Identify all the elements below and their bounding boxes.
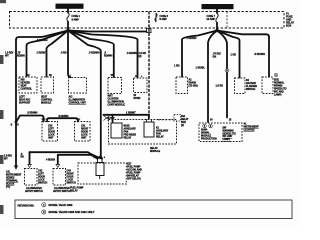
svg-text:MODEL YEARS 1990 AND 1991 ONLY: MODEL YEARS 1990 AND 1991 ONLY: [49, 210, 95, 214]
label MR2 right: [156, 127, 169, 139]
caption fuel pump relay: [70, 187, 84, 193]
svg-text:1.5 RD: 1.5 RD: [216, 85, 224, 88]
wire drop to relay pins right: [148, 115, 150, 119]
wire label r3 up: [213, 53, 221, 59]
component box M1 door lock: [42, 122, 58, 142]
wire right fan branch r5: [217, 31, 269, 77]
wire banner2 drop: [216, 9, 218, 13]
svg-text:.5 RD/WH: .5 RD/WH: [27, 112, 38, 115]
caption box K1: [19, 96, 31, 105]
svg-text:RELAY: RELAY: [70, 190, 78, 193]
label fuse 5: [160, 15, 169, 21]
svg-text:BOX: BOX: [181, 122, 186, 124]
wire left fan branch b8 horizontal to junction: [68, 31, 147, 32]
svg-text:HOT AT ALL TIMES: HOT AT ALL TIMES: [58, 5, 82, 9]
relay pins fuel pump: [98, 159, 103, 164]
component box K5: [134, 78, 148, 93]
svg-text:OFF DELAY): OFF DELAY): [127, 178, 141, 181]
svg-text:SWITCH: SWITCH: [246, 88, 255, 91]
junction at 148,117: [148, 114, 150, 116]
svg-text:UNIT: UNIT: [81, 137, 87, 140]
label box R2 right: [246, 79, 257, 91]
node left fan: [66, 29, 69, 32]
svg-text:HOT IN RUN/START: HOT IN RUN/START: [205, 5, 230, 9]
dashed wire from fuse box at x149: [148, 12, 150, 118]
wire left fan branch b7: [68, 31, 138, 78]
caption BL1: [25, 187, 43, 193]
connector at box M1: [42, 119, 46, 122]
wire label 1.5 RD/WT left: [5, 52, 13, 58]
label box R3 right: [274, 79, 287, 97]
label fuel pump relay right: [127, 163, 142, 181]
svg-text:ENTRY SWITCH: ENTRY SWITCH: [53, 190, 71, 193]
caption enclosure bottom: [150, 147, 161, 153]
label fuse 7: [206, 15, 215, 21]
wire left fan branch b5: [68, 31, 102, 159]
svg-text:CONT MODULE: CONT MODULE: [108, 104, 126, 107]
svg-text:BOX: BOX: [286, 25, 292, 28]
component box K2: [41, 77, 54, 93]
wire label 1 RD r1 low: [174, 65, 180, 68]
circled 1 revision: [42, 203, 46, 207]
text to terminal block: [6, 171, 22, 189]
wire left fan branch b1: [16, 31, 68, 166]
component box K4: [108, 78, 122, 94]
wire label 1 RD/GN r1: [187, 37, 197, 40]
svg-text:(2): (2): [181, 125, 184, 127]
svg-text:RD/WH: RD/WH: [104, 55, 112, 58]
component box MR2 inner relay: [144, 119, 154, 137]
label corner BL1: [21, 154, 25, 159]
svg-text:BOND: BOND: [134, 97, 141, 100]
wire label .5 RD/WH b6: [104, 52, 112, 58]
svg-text:CLUSTER: CLUSTER: [244, 129, 255, 132]
pin label box5: [135, 75, 143, 78]
component box BL2: [53, 169, 76, 186]
wire label .5 RD/WH fan left: [37, 39, 48, 42]
fuse F1 symbol: [67, 13, 69, 22]
node right fan: [215, 29, 218, 32]
svg-text:.5 RD/WH: .5 RD/WH: [89, 52, 100, 55]
banner HOT IN RUN AND START: [202, 4, 234, 9]
wire label .5 RD/WH b5: [89, 52, 100, 55]
fuse box divider: [226, 12, 228, 29]
svg-text:SWITCH: SWITCH: [38, 182, 47, 185]
svg-text:.5 RD: .5 RD: [61, 52, 67, 55]
caption box K5: [134, 94, 141, 100]
svg-text:PRODUCTION: PRODUCTION: [201, 138, 217, 141]
small box bus end: [174, 115, 189, 128]
wire drop to box MR1: [112, 115, 114, 122]
component box R2: [235, 78, 246, 94]
wire label 1 RD/WT b3: [37, 52, 47, 55]
wire mid horizontal bus right: [104, 114, 150, 116]
relay inner box: [96, 163, 104, 176]
svg-text:MODULE: MODULE: [41, 102, 52, 105]
component box K3: [69, 78, 87, 94]
wire bottom-left horizontal upper: [30, 152, 98, 159]
banner HOT AT ALL TIMES: [56, 4, 84, 9]
dashed wire bus continuation right: [158, 119, 174, 121]
wire left fan branch b6: [68, 31, 114, 78]
svg-text:.5 RD/WH: .5 RD/WH: [58, 115, 69, 118]
text N16 left col: [201, 129, 217, 141]
svg-text:GN: GN: [213, 56, 217, 59]
dashed enclosure mid-right: [109, 120, 177, 145]
svg-text:.5 RD/WH: .5 RD/WH: [254, 53, 265, 56]
label box R1 right: [189, 79, 198, 88]
svg-text:CONTROL: CONTROL: [21, 88, 33, 91]
wire label 1.5 RD/WT bottom left: [4, 155, 12, 161]
circled 2 revision: [42, 210, 46, 214]
svg-text:1 RD/WT: 1 RD/WT: [37, 52, 47, 55]
caption BL2: [53, 187, 71, 193]
connector at box MR1: [111, 118, 115, 121]
svg-text:1 RD: 1 RD: [174, 65, 180, 68]
wire mid-left junction riser: [16, 116, 44, 123]
wire knot crossing: [89, 153, 102, 159]
text N16 right col: [223, 127, 236, 142]
wire right fan branch r1: [182, 31, 217, 77]
wire right fan branch r3: [217, 31, 227, 118]
circled B marker r3: [225, 69, 229, 73]
wire bottom-left horizontal lower: [58, 155, 102, 164]
pin labels fuel pump relay: [93, 156, 106, 159]
wire banner1 drop: [67, 9, 69, 13]
big dashed box N16: [199, 123, 242, 142]
connector at box BL2: [56, 165, 60, 168]
fuse F2 symbol: [216, 13, 218, 23]
svg-text:.5 RD/WH: .5 RD/WH: [37, 39, 48, 42]
node S33 junction: [15, 121, 18, 124]
svg-text:RD/BN: RD/BN: [17, 55, 25, 58]
svg-text:1 RD/GN: 1 RD/GN: [187, 37, 197, 40]
label N16 right outside: [244, 123, 260, 132]
svg-text:REVISIONS:: REVISIONS:: [18, 203, 35, 207]
component box M2 door lock right: [75, 122, 91, 142]
svg-text:(2): (2): [139, 55, 142, 58]
component box MR1 inner: [111, 123, 136, 140]
svg-text:1 RD/WT: 1 RD/WT: [126, 111, 136, 114]
svg-text:8 AMP: 8 AMP: [72, 18, 80, 21]
label fuse 1: [72, 15, 81, 21]
wire left fan branch b4: [68, 31, 71, 78]
arrow to terminal block: [14, 166, 18, 170]
connector at box BL1: [28, 165, 32, 168]
wire label .5 RD b4: [61, 52, 67, 55]
wire label 1 RD r4: [231, 54, 237, 57]
svg-text:WT: WT: [4, 158, 8, 161]
svg-text:16 AMP: 16 AMP: [206, 18, 215, 21]
wire label 1.5 RD dashed: [139, 52, 147, 58]
svg-text:4 RD/GN: 4 RD/GN: [46, 159, 55, 162]
wire fuse2 to right fan: [216, 23, 218, 31]
svg-text:RD: RD: [21, 157, 25, 159]
fuse F3 symbol: [155, 13, 157, 22]
wire relay vertical feed: [97, 156, 101, 159]
wire label .75 RD/BN: [17, 52, 25, 58]
wire left fan branch b2: [27, 31, 69, 77]
circled 2 in N16: [209, 124, 213, 128]
junction node at 148,31: [147, 29, 152, 33]
connector pair on bus start: [104, 116, 111, 121]
svg-text:(TD SIG): (TD SIG): [189, 85, 198, 88]
wire label r2: [196, 67, 206, 70]
svg-text:.5 RD/WH: .5 RD/WH: [127, 52, 138, 55]
wire right fan branch r2: [208, 31, 217, 123]
svg-text:SUPPORT: SUPPORT: [19, 102, 31, 105]
component box R1: [176, 77, 188, 94]
svg-text:MODEL YEAR 1990: MODEL YEAR 1990: [49, 203, 73, 207]
svg-text:(F1): (F1): [6, 186, 10, 189]
wire drop to box M1: [47, 118, 78, 121]
svg-text:30A: 30A: [181, 115, 185, 118]
connector at box M2: [76, 119, 80, 122]
svg-text:ENTRY SWITCH: ENTRY SWITCH: [25, 190, 43, 193]
wire left fan branch b3: [47, 31, 69, 77]
wire label .5 RD/WH r5: [254, 53, 265, 56]
caption box K4: [108, 95, 126, 107]
svg-text:RELAY: RELAY: [156, 136, 164, 139]
component box R3: [262, 77, 273, 94]
svg-text:SWITCH: SWITCH: [67, 182, 76, 185]
svg-text:RELAY: RELAY: [124, 137, 132, 140]
svg-text:MODULE: MODULE: [150, 150, 161, 153]
wire bottom-left corner L1: [29, 152, 31, 164]
svg-text:LAMP): LAMP): [223, 138, 231, 141]
caption box K2: [41, 96, 53, 105]
svg-text:RELAY: RELAY: [181, 118, 189, 121]
circled 1 marker box R3: [274, 73, 278, 77]
caption box K3: [69, 96, 87, 105]
component box K1 heated seat: [19, 77, 37, 93]
dashed box fuel pump relay: [78, 163, 126, 184]
junction label S33: [11, 123, 20, 127]
label fuse box right F1: [286, 13, 294, 28]
wire fuse1 to fan: [67, 22, 69, 31]
scan edge artifacts: [0, 0, 6, 214]
svg-text:CONTROL UNIT: CONTROL UNIT: [69, 102, 87, 105]
component box BL1: [25, 169, 48, 186]
svg-text:1 RD: 1 RD: [231, 54, 237, 57]
fuse box F1 (long dashed): [10, 12, 285, 29]
svg-text:8 AMP: 8 AMP: [160, 18, 168, 21]
wire label .5 RD/WH b8: [127, 52, 138, 55]
wire right fan branch r4: [217, 31, 240, 78]
svg-text:1 RD/BL: 1 RD/BL: [196, 67, 206, 70]
svg-text:WT: WT: [5, 55, 9, 58]
wire label 1.5 RD r3: [216, 85, 224, 88]
circled 1 in N16: [203, 124, 207, 128]
revisions table: [15, 200, 292, 219]
svg-text:LAMP): LAMP): [274, 94, 282, 97]
svg-text:UNIT: UNIT: [48, 137, 54, 140]
